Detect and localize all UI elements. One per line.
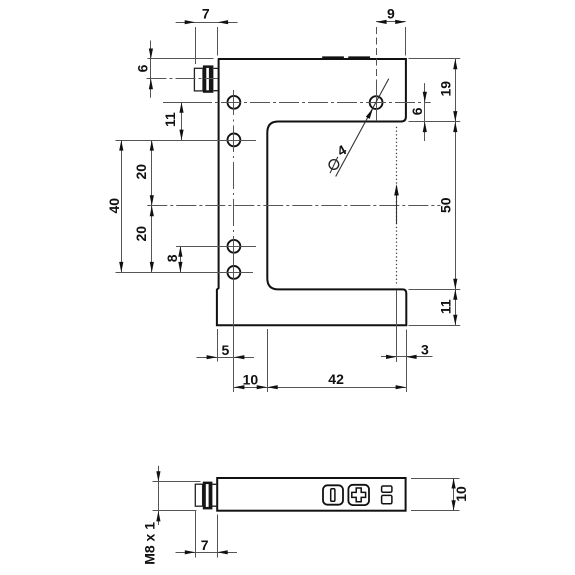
H4 tick line — [116, 272, 254, 274]
svg-text:7: 7 — [201, 537, 209, 553]
dim 3 (bottom-right): dimension line and arrows — [381, 356, 433, 358]
mounting hole H1 — [228, 96, 241, 109]
dim 7 (side): extension lines — [195, 511, 197, 558]
dim 5 (bottom): extension lines — [217, 329, 219, 362]
dim 20 upper (left): dimension line and arrows — [151, 140, 153, 206]
svg-text:7: 7 — [202, 5, 210, 21]
svg-text:6: 6 — [135, 64, 151, 72]
dim 10 (side): dimension line and arrows — [453, 478, 455, 511]
svg-text:11: 11 — [162, 112, 178, 127]
dim 50 (right): dimension line and arrows — [455, 122, 457, 290]
optical axis dotted line — [396, 128, 398, 283]
dim 8 (left): dimension line and arrows — [180, 246, 182, 272]
dim 10 (bottom): extension line — [267, 329, 269, 392]
mounting hole H5 (top arm) — [370, 96, 383, 109]
right extensions: top edge, slot top, slot bottom, body bottom — [409, 58, 461, 60]
svg-text:10: 10 — [243, 372, 259, 388]
M8 connector (front view) — [194, 68, 203, 91]
dim 6 (top-left): top edge extension — [147, 58, 213, 60]
dim 6 (top-left): dimension line and arrows — [150, 41, 152, 98]
fork sensor body outline (front view) — [217, 59, 406, 325]
svg-text:9: 9 — [387, 6, 395, 22]
svg-text:11: 11 — [438, 299, 454, 314]
dim 40 (left): dimension line and arrows — [121, 140, 123, 272]
svg-text:M8 x 1: M8 x 1 — [142, 522, 158, 565]
dim 11 (right): dimension line and arrows — [455, 289, 457, 325]
dim 9 (top): extension line — [405, 27, 407, 56]
hole centerline horizontal (through H1,H5) — [163, 102, 431, 104]
svg-text:8: 8 — [164, 254, 180, 262]
hole diameter label — [329, 160, 339, 170]
H5 vertical dashed extension — [376, 27, 378, 83]
dim 7 (side): dimension line and arrows — [176, 552, 238, 554]
svg-text:50: 50 — [438, 197, 454, 213]
svg-text:10: 10 — [453, 486, 469, 502]
dim 7 (top): extension lines — [195, 27, 197, 64]
optical axis arrow — [396, 193, 398, 224]
svg-text:40: 40 — [106, 198, 122, 214]
mounting hole H4 — [228, 266, 241, 279]
optical axis extension below — [396, 290, 398, 362]
dim 10: dimension line and arrows — [234, 387, 267, 389]
dim 19 (right): dimension line and arrows — [455, 59, 457, 122]
svg-text:42: 42 — [328, 371, 344, 387]
svg-text:20: 20 — [133, 226, 149, 242]
svg-text:19: 19 — [438, 81, 454, 97]
side view body — [217, 478, 405, 511]
H3 tick line — [176, 246, 256, 248]
dim M8x1: extension lines — [153, 481, 201, 483]
LED indicators — [382, 486, 392, 492]
dim 9 (top): dimension line and arrows — [376, 21, 406, 23]
adjust button (plus) — [348, 485, 369, 505]
svg-text:5: 5 — [222, 342, 230, 358]
main horizontal centerline — [147, 205, 440, 207]
dim 11 (left): extension — [176, 102, 196, 104]
svg-text:3: 3 — [421, 342, 429, 358]
teach button (bar) — [323, 485, 343, 504]
dim 10 (side right): extension lines — [411, 478, 460, 480]
connector centerline — [147, 78, 218, 80]
hole centerline vertical (through H1-H4) — [233, 90, 235, 392]
dim 11 (left): dimension line and arrows — [181, 102, 183, 140]
svg-text:6: 6 — [409, 107, 425, 115]
mounting hole H2 — [228, 134, 241, 147]
dim 42 (bottom): extension line — [406, 330, 408, 393]
dim 20 lower (left): dimension line and arrows — [151, 206, 153, 273]
dim 5: dimension line and arrows — [197, 357, 255, 359]
top edge ridge marks — [322, 56, 370, 58]
svg-text:20: 20 — [133, 164, 149, 180]
dim 6 (right): dimension line and arrows — [424, 83, 426, 141]
dim 42: dimension line and arrows — [267, 387, 406, 389]
mounting hole H3 — [228, 240, 241, 253]
side view connector — [195, 484, 202, 506]
H2 tick line — [116, 140, 257, 142]
dim 7 (top): dimension line and arrows — [176, 22, 238, 24]
dim M8x1: dimension line and arrows — [158, 466, 160, 525]
hole diameter leader line — [336, 79, 389, 177]
